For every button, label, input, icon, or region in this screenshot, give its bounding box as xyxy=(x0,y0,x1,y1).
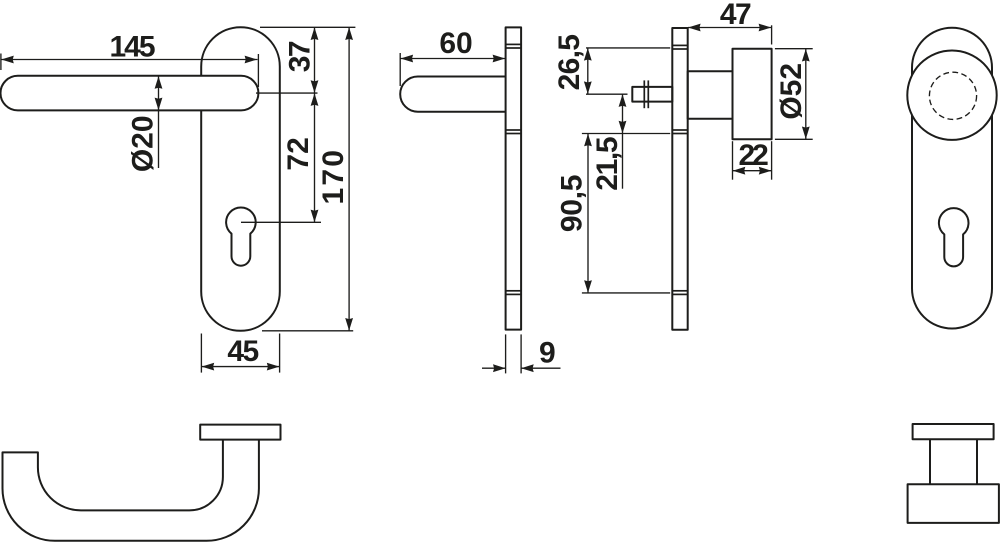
dimension 9 xyxy=(482,334,561,373)
dimension 60 xyxy=(400,27,505,86)
knob head profile xyxy=(908,484,999,523)
spindle washer xyxy=(643,80,645,108)
handle centreline extension xyxy=(256,92,318,94)
spindle shaft xyxy=(632,87,672,102)
figure 3: knob plate side view xyxy=(632,28,771,330)
dimension 72 xyxy=(282,93,318,222)
figure 1: lever handle plate front view xyxy=(1,27,280,331)
dimension 22 xyxy=(733,139,772,180)
dimension 145 xyxy=(1,31,259,88)
hidden neck circle (dashed) xyxy=(929,72,976,119)
plate fixing marks top xyxy=(672,44,687,46)
knob face circle xyxy=(907,50,996,139)
dimension 45 xyxy=(201,334,279,373)
plate fixing marks middle xyxy=(506,129,521,131)
dimension Ø20 xyxy=(126,76,162,172)
euro profile keyhole xyxy=(226,207,256,265)
keyhole centreline extension xyxy=(241,221,321,223)
svg-text:26,5: 26,5 xyxy=(553,35,586,91)
side plate xyxy=(506,27,521,329)
knob neck profile xyxy=(929,439,931,484)
dimension Ø52 xyxy=(775,49,813,140)
figure 2: lever handle side view xyxy=(400,27,521,329)
dimension 47 xyxy=(688,0,772,45)
handle flange xyxy=(200,425,280,440)
figure 5: lever handle end profile xyxy=(3,425,281,541)
plate bottom extension line xyxy=(262,330,353,332)
dimension 170 xyxy=(317,27,353,330)
svg-text:170: 170 xyxy=(317,148,350,205)
svg-text:145: 145 xyxy=(109,31,154,64)
figure 6: knob end profile xyxy=(908,424,999,523)
svg-text:60: 60 xyxy=(439,27,472,60)
handle grip side profile xyxy=(400,77,505,112)
dimension 90,5 xyxy=(556,134,671,293)
svg-text:Ø20: Ø20 xyxy=(126,115,159,172)
svg-text:90,5: 90,5 xyxy=(556,175,589,232)
plate fixing marks bottom xyxy=(672,290,687,292)
plate top extension line xyxy=(260,26,355,28)
svg-text:9: 9 xyxy=(539,337,556,370)
figure 4: knob plate front view xyxy=(907,28,996,329)
svg-text:47: 47 xyxy=(720,0,751,31)
svg-text:21,5: 21,5 xyxy=(591,137,624,191)
handle tube profile xyxy=(3,440,259,541)
svg-text:45: 45 xyxy=(227,335,258,368)
knob flange xyxy=(913,424,994,439)
plate fixing marks bottom xyxy=(506,290,521,292)
svg-text:37: 37 xyxy=(284,41,317,72)
svg-text:72: 72 xyxy=(282,137,315,170)
dimension 21,5 xyxy=(582,94,670,190)
side plate xyxy=(672,28,687,330)
knob neck xyxy=(688,71,733,119)
lever handle grip xyxy=(1,76,259,111)
dimension 37 xyxy=(284,27,319,93)
dimension 26,5 xyxy=(553,35,670,94)
plate fixing marks middle xyxy=(672,129,687,131)
backplate outline xyxy=(912,28,992,329)
knob head side view xyxy=(733,49,772,140)
plate fixing marks top xyxy=(506,43,521,45)
svg-text:22: 22 xyxy=(739,139,769,172)
svg-text:Ø52: Ø52 xyxy=(775,63,808,120)
euro profile keyhole xyxy=(939,208,969,266)
backplate outline xyxy=(201,27,280,331)
